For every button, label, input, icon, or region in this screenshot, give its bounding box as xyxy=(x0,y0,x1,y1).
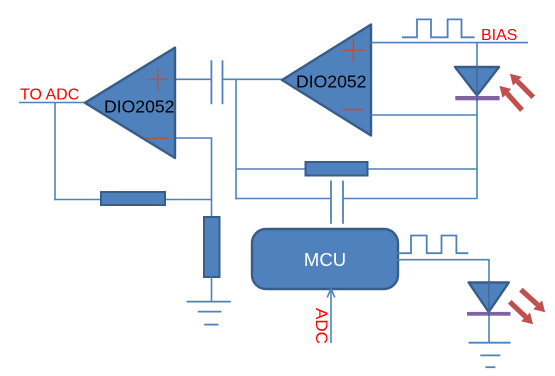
wire: feedback capacitor branch horizontal xyxy=(236,198,478,200)
wire: feedback resistor branch horizontal xyxy=(236,168,477,170)
wire: feedback bottom horizontal through R1 xyxy=(54,199,212,201)
wire: capacitor C1 to op-amp U2 input node xyxy=(223,78,284,80)
svg-text:TO ADC: TO ADC xyxy=(20,87,79,104)
light arrows out of LED D2 xyxy=(510,290,545,325)
wire: U2 inverting input to photodiode node xyxy=(371,114,477,116)
op-amp U1 xyxy=(85,48,175,158)
svg-text:DIO2052: DIO2052 xyxy=(296,72,366,92)
node ADC label (rotated) xyxy=(312,308,331,344)
wire: U2 input node vertical drop xyxy=(235,79,237,199)
ground G1 xyxy=(187,302,231,325)
resistor R2 xyxy=(306,162,368,176)
op-amp U2 xyxy=(282,25,371,136)
wire: U2 non-inverting input to BIAS xyxy=(371,42,528,44)
light arrows into photodiode D1 xyxy=(500,74,534,110)
capacitor C1 xyxy=(211,60,222,104)
svg-text:DIO2052: DIO2052 xyxy=(104,97,174,117)
wire: op-amp U1 output to TO ADC xyxy=(19,102,86,104)
LED D2 xyxy=(467,283,511,316)
wire: vertical segment over photodiode D1 body xyxy=(476,66,478,101)
wire: feedback vertical from output node down xyxy=(54,103,56,201)
svg-text:BIAS: BIAS xyxy=(481,27,517,44)
square wave symbol on BIAS line xyxy=(402,19,475,37)
capacitor C2 xyxy=(331,181,343,224)
wire: MCU output to LED D2 xyxy=(397,260,489,283)
square wave symbol on MCU output xyxy=(397,236,468,254)
wire: vertical segment over LED D2 body xyxy=(488,282,490,316)
ground G2 xyxy=(469,343,511,368)
photodiode D1 xyxy=(455,67,500,100)
svg-text:MCU: MCU xyxy=(304,249,346,270)
node TO ADC label xyxy=(20,87,79,104)
wire: U1 non-inverting input to capacitor C1 xyxy=(174,78,211,80)
wire: LED D2 cathode to ground xyxy=(488,316,490,343)
wire: photodiode branch vertical xyxy=(476,43,478,199)
wire: U1 inverting input to vertical drop xyxy=(174,138,212,218)
node BIAS label xyxy=(481,27,517,44)
ADC arrow into MCU bottom xyxy=(327,289,335,344)
resistor R1 xyxy=(101,192,165,205)
svg-text:ADC: ADC xyxy=(312,308,331,344)
wire: R3 bottom to ground xyxy=(211,277,213,302)
resistor R3 xyxy=(204,217,220,277)
MCU U3 xyxy=(252,229,398,289)
